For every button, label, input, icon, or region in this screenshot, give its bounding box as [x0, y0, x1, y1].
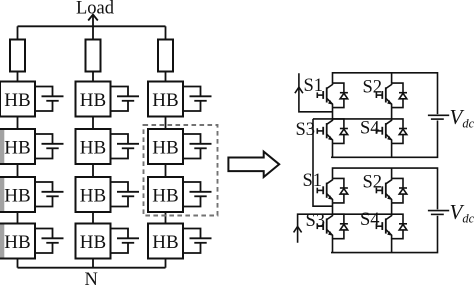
wire right leg mid (lower cell)	[391, 203, 393, 214]
IGBT switch S4 (lower cell) with anti-parallel diode	[376, 214, 407, 239]
svg-text:HB: HB	[80, 137, 106, 158]
wire S4 emitter to bottom rail (upper cell)	[391, 143, 393, 157]
wire dc-link loop of HB9	[183, 182, 201, 207]
dc source (battery) of HB7	[42, 192, 64, 197]
IGBT switch S1 (lower cell) with anti-parallel diode	[317, 178, 348, 203]
svg-text:HB: HB	[4, 137, 30, 158]
dc source (battery) of HB10	[42, 238, 64, 243]
grey clipped left edge of HB cell	[0, 130, 4, 163]
wire column 1: top bus to filter	[17, 26, 19, 39]
wire left leg mid (lower cell)	[332, 203, 334, 214]
wire dc-link loop of HB10	[35, 229, 53, 254]
wire HB6 to next row	[165, 164, 167, 177]
svg-text:HB: HB	[4, 185, 30, 206]
wire S3 emitter to bottom rail (lower cell)	[332, 239, 334, 253]
svg-text:S3: S3	[306, 211, 326, 231]
svg-text:HB: HB	[152, 137, 178, 158]
svg-text:Vdc: Vdc	[450, 105, 474, 131]
IGBT switch S4 (upper cell) with anti-parallel diode	[376, 119, 407, 143]
svg-text:HB: HB	[152, 232, 178, 253]
H-bridge cell HB2 (row 1, col 2)	[76, 82, 111, 117]
wire S4 emitter to bottom rail (lower cell)	[391, 239, 393, 253]
wire HB11 to bottom bus	[92, 259, 94, 268]
dashed highlight box around HB6 and HB9	[144, 125, 218, 216]
IGBT switch S3 (lower cell) with anti-parallel diode	[317, 214, 348, 239]
H-bridge cell HB4 (row 2, col 1)	[0, 129, 35, 164]
H-bridge cell HB12 (row 4, col 3)	[148, 224, 183, 259]
wire HB4 to next row	[17, 164, 19, 177]
wire B upper cell (right leg tap)	[313, 118, 392, 120]
IGBT switch S1 (upper cell) with anti-parallel diode	[317, 83, 348, 108]
svg-text:HB: HB	[80, 90, 106, 111]
wire HB5 to next row	[92, 164, 94, 177]
wire top bus	[18, 25, 166, 27]
wire dc-link loop of HB8	[111, 182, 129, 207]
wire left leg mid (upper cell)	[332, 108, 334, 119]
wire S2 collector stub (upper cell)	[391, 73, 393, 83]
wire HB3 to next row	[165, 117, 167, 130]
IGBT switch S2 (upper cell) with anti-parallel diode	[376, 83, 407, 108]
wire HB10 to bottom bus	[17, 259, 19, 268]
wire phase output with up arrow (top terminal)	[295, 73, 333, 112]
inductor filter L1	[10, 40, 25, 72]
svg-text:S4: S4	[360, 210, 380, 230]
wire dc-link loop of HB3	[183, 87, 201, 112]
dc source (battery) of HB6	[190, 144, 212, 149]
wire dc-link loop of HB12	[183, 229, 201, 254]
svg-text:HB: HB	[4, 90, 30, 111]
svg-text:S1: S1	[304, 76, 324, 96]
wire column 2: top bus to filter	[92, 26, 94, 39]
svg-text:S4: S4	[360, 119, 380, 139]
IGBT switch S2 (lower cell) with anti-parallel diode	[376, 178, 407, 203]
svg-text:S3: S3	[296, 120, 316, 140]
dc source V_dc (upper cell)	[428, 115, 449, 119]
wire dc-link loop of HB2	[111, 87, 129, 112]
H-bridge cell HB1 (row 1, col 1)	[0, 82, 35, 117]
wire HB8 to next row	[92, 212, 94, 224]
H-bridge cell HB8 (row 3, col 2)	[76, 177, 111, 212]
inductor filter L2	[86, 40, 101, 72]
wire S3 emitter to bottom rail (upper cell)	[332, 143, 334, 157]
wire right rail lower + bottom rail (lower cell)	[331, 216, 438, 253]
wire B lower cell with bottom terminal and up arrow	[294, 214, 392, 243]
dc source (battery) of HB2	[117, 96, 139, 101]
H-bridge cell HB6 (row 2, col 3)	[148, 129, 183, 164]
dc source V_dc (lower cell)	[428, 211, 449, 215]
svg-text:S2: S2	[363, 173, 383, 193]
H-bridge cell HB11 (row 4, col 2)	[76, 224, 111, 259]
svg-text:HB: HB	[80, 232, 106, 253]
wire HB1 to next row	[17, 117, 19, 130]
dc source (battery) of HB8	[117, 192, 139, 197]
upper H-bridge cell: top rail and right rail	[333, 73, 438, 114]
IGBT switch S3 (upper cell) with anti-parallel diode	[317, 119, 348, 143]
wire dc-link loop of HB5	[111, 134, 129, 159]
grey clipped left edge of HB cell	[0, 178, 4, 211]
grey clipped left edge of HB cell	[0, 225, 4, 258]
wire right rail lower + bottom rail (upper cell)	[331, 121, 438, 158]
dc source (battery) of HB5	[117, 144, 139, 149]
wire HB9 to next row	[165, 212, 167, 224]
dc source (battery) of HB9	[190, 192, 212, 197]
dc source (battery) of HB1	[42, 96, 64, 101]
inductor filter L3	[158, 40, 173, 72]
wire right leg mid (upper cell)	[391, 108, 393, 119]
wire filter to first HB cell col 3	[165, 72, 167, 82]
wire dc-link loop of HB4	[35, 134, 53, 159]
wire dc-link loop of HB6	[183, 134, 201, 159]
H-bridge cell HB5 (row 2, col 2)	[76, 129, 111, 164]
wire dc-link loop of HB11	[111, 229, 129, 254]
wire bottom bus (neutral)	[18, 267, 166, 269]
svg-text:HB: HB	[152, 90, 178, 111]
H-bridge cell HB3 (row 1, col 3)	[148, 82, 183, 117]
svg-text:Vdc: Vdc	[450, 200, 474, 226]
svg-text:HB: HB	[4, 232, 30, 253]
big hollow arrow (zoom indicator)	[228, 152, 279, 177]
dc source (battery) of HB3	[190, 96, 212, 101]
wire column 3: top bus to filter	[165, 26, 167, 39]
dc source (battery) of HB11	[117, 238, 139, 243]
wire S2 collector stub (lower cell)	[391, 168, 393, 178]
dc source (battery) of HB4	[42, 144, 64, 149]
wire HB12 to bottom bus	[165, 259, 167, 268]
svg-text:HB: HB	[80, 185, 106, 206]
svg-text:S2: S2	[363, 77, 383, 97]
wire dc-link loop of HB1	[35, 87, 53, 112]
wire dc-link loop of HB7	[35, 182, 53, 207]
svg-text:N: N	[85, 270, 98, 286]
wire inter-cell connection	[313, 119, 333, 206]
wire filter to first HB cell col 2	[92, 72, 94, 82]
H-bridge cell HB7 (row 3, col 1)	[0, 177, 35, 212]
lower H-bridge cell: top rail and right rail	[333, 168, 438, 209]
svg-text:HB: HB	[152, 185, 178, 206]
wire load arrow (phase output, up arrow)	[88, 15, 98, 27]
svg-text:Load: Load	[76, 0, 115, 19]
wire filter to first HB cell col 1	[17, 72, 19, 82]
svg-text:S1: S1	[303, 171, 323, 191]
dc source (battery) of HB12	[190, 238, 212, 243]
wire HB2 to next row	[92, 117, 94, 130]
H-bridge cell HB9 (row 3, col 3)	[148, 177, 183, 212]
wire HB7 to next row	[17, 212, 19, 224]
H-bridge cell HB10 (row 4, col 1)	[0, 224, 35, 259]
